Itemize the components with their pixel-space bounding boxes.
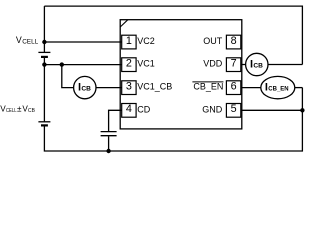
svg-text:CB: CB: [253, 62, 263, 69]
node VCELL dot: [42, 40, 46, 44]
svg-text:VC1_CB: VC1_CB: [137, 82, 172, 92]
capacitor C1 top plate: [101, 131, 117, 133]
pin 7 box: [226, 58, 240, 72]
pin 3 box: [122, 81, 136, 95]
wire pin1 VC2: [44, 41, 121, 43]
wire pin2 VC1: [44, 64, 121, 66]
svg-text:CELL: CELL: [22, 39, 38, 46]
wire mid vertical (battery B1 to battery B2): [43, 58, 45, 122]
svg-text:1: 1: [126, 35, 132, 47]
svg-text:CB_EN: CB_EN: [268, 85, 289, 92]
node mid-cell dot: [42, 62, 46, 66]
pin 4 box: [122, 104, 136, 118]
wire ICB right circle to right vertical: [268, 64, 302, 66]
node branch dot on VC1 wire: [60, 62, 64, 66]
svg-text:3: 3: [126, 81, 132, 93]
IC U1 body: [120, 20, 242, 129]
pin 6 box: [226, 81, 240, 95]
svg-text:VDD: VDD: [203, 59, 223, 69]
current source ICB right circle: [246, 53, 268, 75]
current source ICB left circle: [74, 76, 96, 98]
pin 2 box: [122, 58, 136, 72]
svg-text:CB_EN: CB_EN: [193, 82, 223, 92]
svg-text:VC1: VC1: [137, 59, 155, 69]
pin 8 box: [226, 35, 240, 49]
wire bottom rail: [44, 88, 302, 151]
battery B1 short plate: [41, 56, 48, 58]
svg-text:V: V: [16, 35, 22, 45]
wire pin4 CD: [109, 110, 122, 131]
svg-text:5: 5: [231, 103, 237, 115]
node GND dot: [300, 108, 304, 112]
wire pin7 VDD to ICB right circle: [241, 64, 246, 66]
svg-text:CB: CB: [81, 85, 91, 92]
svg-text:VC2: VC2: [137, 36, 155, 46]
wire branch to ICB left: [62, 65, 74, 88]
pin 5 box: [226, 104, 240, 118]
wire ICB_EN ellipse to right vertical: [295, 87, 303, 89]
wire capacitor to bottom rail: [108, 136, 110, 151]
svg-text:2: 2: [126, 58, 132, 70]
pin 1 box: [122, 35, 136, 49]
svg-text:CB: CB: [28, 108, 35, 114]
svg-text:CELL: CELL: [6, 108, 17, 114]
wire pin6 CB_EN to ICB_EN ellipse: [241, 87, 261, 89]
svg-text:7: 7: [231, 58, 237, 70]
capacitor C1 bottom plate: [101, 135, 117, 137]
wire pin5 GND: [241, 109, 303, 111]
svg-text:6: 6: [231, 81, 237, 93]
svg-text:±: ±: [17, 105, 22, 114]
svg-text:8: 8: [231, 35, 237, 47]
node capacitor-ground dot: [106, 149, 110, 153]
pin-1 chamfer mark: [120, 20, 128, 27]
svg-text:4: 4: [126, 103, 132, 115]
battery B2 long plate: [38, 121, 50, 123]
current source ICB_EN ellipse: [261, 76, 295, 98]
svg-text:OUT: OUT: [203, 36, 223, 46]
wire ICB left circle to pin3: [96, 87, 122, 89]
overline for CB_EN: [192, 81, 223, 83]
svg-text:CD: CD: [137, 104, 150, 114]
battery B1 long plate: [38, 51, 50, 53]
wire top rail (VC2 to ICB right): [44, 6, 302, 64]
wire left vertical upper (top rail to battery top): [43, 6, 45, 52]
battery B2 short plate: [41, 124, 48, 126]
svg-text:GND: GND: [202, 104, 223, 114]
